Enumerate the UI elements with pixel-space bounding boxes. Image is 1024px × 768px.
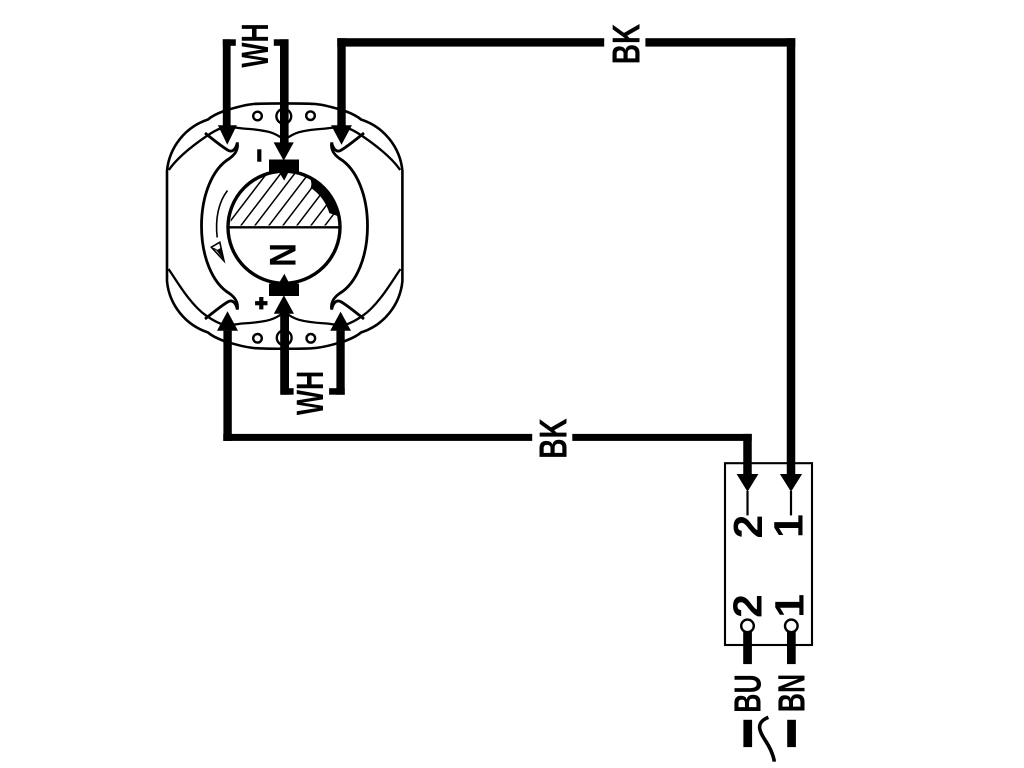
arrowhead into brush minus <box>274 142 294 160</box>
brush top <box>269 160 299 173</box>
svg-text:BK: BK <box>605 23 649 64</box>
rotor / armature circle <box>228 171 340 283</box>
arrowhead into housing top-left <box>218 125 237 145</box>
wire BK top horizontal segment 1 <box>337 38 604 46</box>
end shield seam / brush plate edge top <box>169 127 400 170</box>
wire BK top vertical at motor <box>337 38 345 127</box>
wire WH left (top) with cable-end bracket <box>223 39 236 46</box>
svg-text:1: 1 <box>766 594 812 618</box>
svg-text:2: 2 <box>724 594 770 618</box>
svg-text:N: N <box>263 243 304 267</box>
arrowhead into housing top-right <box>331 125 352 145</box>
arrowhead into housing bottom-right <box>330 312 351 331</box>
bolt hole bottom-right <box>307 334 316 343</box>
rotation direction arrowhead <box>211 242 224 261</box>
wire BU below pin 2 <box>743 632 752 665</box>
wire BU end dash <box>743 720 752 747</box>
svg-text:WH: WH <box>233 23 276 67</box>
svg-text:BU: BU <box>726 674 769 712</box>
arrowhead into connector pin 2 <box>737 474 759 492</box>
socket pin 2 <box>741 620 754 633</box>
wire BK top horizontal segment 2 <box>645 38 795 46</box>
bolt hole top-left <box>253 112 262 121</box>
plus polarity mark (rotated) <box>259 297 263 309</box>
bolt hole top-middle <box>276 109 291 124</box>
svg-text:2: 2 <box>725 515 771 539</box>
minus polarity mark (rotated) <box>257 149 261 161</box>
wire BK right vertical <box>787 38 796 474</box>
wire BN end dash <box>787 720 796 747</box>
rotor divider line <box>228 226 340 228</box>
connector X1 body <box>725 463 812 645</box>
bolt hole bottom-left <box>253 334 262 343</box>
bolt hole top-right <box>306 111 315 120</box>
wire BK bottom: arrow out of housing bottom-left <box>217 311 238 331</box>
AC tilde symbol (rotated) <box>760 717 775 761</box>
wire WH middle (top) with cable-end bracket <box>274 39 288 46</box>
wire BK bottom vertical into connector <box>743 434 752 474</box>
svg-text:1: 1 <box>766 514 812 538</box>
brush bottom <box>269 284 299 297</box>
pin 1 stub line <box>790 491 792 515</box>
end shield seam / brush plate edge bottom <box>169 269 401 325</box>
bolt hole bottom-middle <box>277 330 292 345</box>
svg-text:BN: BN <box>770 674 813 712</box>
arrowhead into connector pin 1 <box>780 474 802 492</box>
svg-text:BK: BK <box>532 418 576 459</box>
arrowhead into brush plus <box>274 295 294 314</box>
wire BK bottom horizontal segment 2 <box>572 434 751 441</box>
pin 2 stub line <box>746 491 748 515</box>
magnet pole left with end curls <box>202 133 238 319</box>
wire BN below pin 1 <box>787 632 796 665</box>
wire BK bottom horizontal segment 1 <box>223 434 532 441</box>
socket pin 1 <box>785 620 798 633</box>
rotor hatching upper half <box>222 164 372 232</box>
svg-text:WH: WH <box>288 371 331 415</box>
motor M1 housing outline with mounting tabs <box>167 103 402 348</box>
rotor thick edge arc upper right <box>310 178 338 216</box>
wire WH right (bottom) with cable-end bracket <box>329 388 345 395</box>
magnet pole right with end curls <box>331 133 367 319</box>
rotation direction arc <box>217 191 228 238</box>
wire WH middle (bottom) with cable-end bracket <box>281 388 294 395</box>
